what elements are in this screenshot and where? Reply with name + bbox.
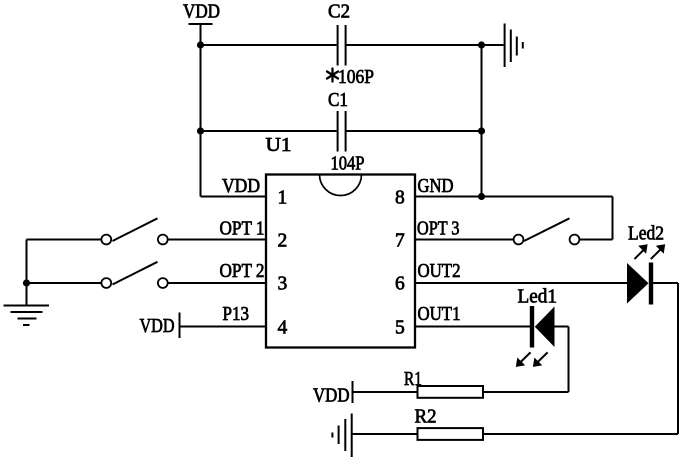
wire VDD vertical bbox=[200, 24, 202, 197]
wire R2 row right bbox=[483, 433, 678, 435]
svg-text:OPT 1: OPT 1 bbox=[220, 219, 265, 240]
wire right vertical to GND pin row bbox=[481, 45, 483, 197]
svg-text:R2: R2 bbox=[415, 407, 437, 428]
node at VDD/C1 row bbox=[197, 127, 204, 134]
svg-text:C2: C2 bbox=[328, 1, 350, 22]
ground (top right, sideways) bbox=[505, 24, 523, 68]
wire Led1 anode to drop bbox=[555, 326, 569, 328]
node at VDD/C2 row bbox=[197, 41, 204, 48]
svg-text:7: 7 bbox=[395, 231, 405, 252]
capacitor C1 bbox=[328, 90, 365, 174]
svg-text:P13: P13 bbox=[223, 304, 250, 325]
wire C2 row left bbox=[201, 44, 337, 46]
svg-text:OUT2: OUT2 bbox=[418, 261, 461, 282]
power VDD (R1) bbox=[313, 381, 353, 407]
switch (OPT1) bbox=[101, 218, 167, 244]
node at GND pin row bbox=[478, 193, 485, 200]
wire Led2 cathode to right rail bbox=[653, 282, 678, 284]
wire left rail vertical bbox=[26, 240, 28, 306]
svg-text:Led1: Led1 bbox=[518, 287, 558, 308]
wire OPT2 switch to pin 3 bbox=[168, 282, 267, 284]
svg-text:104P: 104P bbox=[331, 153, 365, 174]
svg-text:4: 4 bbox=[278, 318, 288, 339]
wire OPT3 switch right lead bbox=[580, 239, 613, 241]
wire pin 5 OUT1 to Led1 bbox=[415, 326, 530, 328]
capacitor C2 bbox=[327, 1, 374, 88]
svg-text:5: 5 bbox=[395, 318, 405, 339]
node left rail / OPT2 row bbox=[23, 279, 30, 286]
wire left rail to OPT2 switch bbox=[27, 282, 102, 284]
svg-text:U1: U1 bbox=[266, 135, 292, 156]
wire pin 7 to OPT3 switch bbox=[415, 239, 514, 241]
wire OPT1 switch to pin 2 bbox=[168, 239, 267, 241]
IC U1 body bbox=[266, 135, 416, 348]
svg-text:2: 2 bbox=[278, 231, 288, 252]
node at C1/right column bbox=[478, 127, 485, 134]
switch (OPT2) bbox=[101, 262, 167, 288]
node at C2/ground column bbox=[478, 41, 485, 48]
LED Led2 bbox=[627, 224, 665, 305]
resistor R1 bbox=[404, 369, 483, 398]
wire to top-right ground bbox=[482, 44, 504, 46]
wire pin 6 OUT2 to Led2 bbox=[415, 282, 627, 284]
svg-text:GND: GND bbox=[418, 176, 454, 197]
wire C2 row right bbox=[347, 44, 482, 46]
wire left rail to OPT1 switch bbox=[27, 239, 102, 241]
svg-text:OPT 2: OPT 2 bbox=[220, 261, 265, 282]
wire pin 8 GND row bbox=[415, 196, 613, 198]
wire C1 row left bbox=[201, 130, 337, 132]
LED Led1 bbox=[516, 287, 557, 367]
wire right drop to OPT3 switch bbox=[612, 197, 614, 240]
wire right rail down to R2 row bbox=[677, 283, 679, 434]
svg-text:OPT 3: OPT 3 bbox=[417, 219, 460, 240]
switch (OPT3) bbox=[514, 218, 580, 244]
wire C1 row right bbox=[347, 130, 482, 132]
svg-text:8: 8 bbox=[395, 188, 405, 209]
svg-text:3: 3 bbox=[278, 274, 288, 295]
wire VDD to pin 4 (P13) bbox=[181, 326, 267, 328]
wire R1 row right bbox=[483, 391, 569, 393]
power VDD (P13) bbox=[140, 313, 180, 339]
wire pin 1 to VDD column bbox=[201, 196, 267, 198]
wire R1 left lead bbox=[354, 391, 418, 393]
svg-text:VDD: VDD bbox=[313, 386, 350, 407]
svg-text:106P: 106P bbox=[338, 67, 374, 88]
svg-text:VDD: VDD bbox=[222, 176, 260, 197]
svg-text:OUT1: OUT1 bbox=[418, 304, 461, 325]
svg-text:R1: R1 bbox=[404, 369, 422, 390]
svg-text:VDD: VDD bbox=[140, 316, 175, 337]
wire drop to R1 row bbox=[568, 327, 570, 393]
ground (R2, sideways left) bbox=[332, 414, 351, 458]
wire R2 left lead bbox=[352, 433, 418, 435]
svg-text:6: 6 bbox=[395, 274, 405, 295]
power VDD (top) bbox=[183, 1, 220, 24]
svg-text:VDD: VDD bbox=[183, 1, 220, 22]
svg-text:Led2: Led2 bbox=[628, 224, 664, 245]
svg-text:C1: C1 bbox=[328, 90, 348, 111]
resistor R2 bbox=[415, 407, 484, 440]
ground (far left) bbox=[4, 306, 50, 326]
svg-text:1: 1 bbox=[278, 188, 288, 209]
